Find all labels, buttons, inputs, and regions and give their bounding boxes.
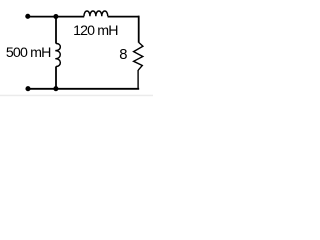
inductor L1 120 mH coil — [84, 11, 108, 16]
wire left vertical lower — [55, 66, 57, 89]
svg-text:500 mH: 500 mH — [6, 45, 51, 61]
wire bottom — [28, 88, 139, 90]
wire left vertical upper — [55, 17, 57, 44]
wire right vertical lower — [137, 70, 139, 89]
inductor L2 500 mH coil — [55, 43, 60, 66]
wire right vertical upper — [138, 16, 140, 43]
resistor R1 8 ohm zigzag — [134, 42, 143, 70]
faint table rule — [0, 95, 153, 97]
node dot top junction — [53, 14, 58, 19]
svg-text:8: 8 — [119, 47, 127, 63]
node dot top-left terminal — [25, 14, 30, 19]
wire top left segment — [28, 16, 84, 18]
wire top right segment — [108, 16, 140, 18]
svg-text:120 mH: 120 mH — [73, 23, 118, 39]
node dot bottom junction — [53, 86, 58, 91]
node dot bottom-left terminal — [25, 86, 30, 91]
